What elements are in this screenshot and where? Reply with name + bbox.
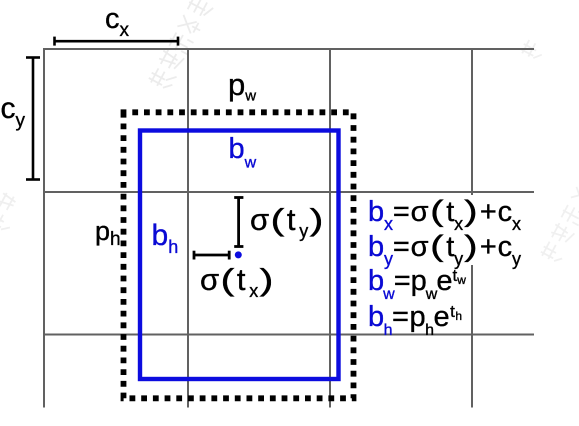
- grid horizontal line 2: [44, 191, 534, 193]
- annotation sigma(t_y): [250, 204, 326, 240]
- grid vertical line 4: [471, 48, 473, 408]
- c_y measure line: [26, 58, 40, 180]
- equation line 4: b_h = p_h e^t_h: [368, 303, 463, 339]
- sigma(t_x) measure line: [194, 251, 229, 260]
- grid vertical line 1: [43, 48, 45, 408]
- watermark small fragment top-right: [520, 39, 546, 62]
- label c_x: [105, 5, 129, 40]
- watermark bottom-left partial: [0, 192, 24, 234]
- equation line 3: b_w = p_w e^t_w: [368, 267, 466, 303]
- predicted box: blue rectangle: [140, 131, 339, 380]
- sigma(t_y) measure line: [234, 198, 243, 247]
- equation line 2: b_y = sigma(t_y)+c_y: [368, 232, 521, 268]
- grid horizontal line 1: [44, 48, 534, 50]
- label c_y: [1, 94, 26, 131]
- label p_h: [95, 218, 121, 249]
- grid horizontal line 3: [44, 334, 534, 336]
- equation line 1: b_x = sigma(t_x)+c_x: [368, 197, 521, 233]
- label p_w: [228, 69, 256, 104]
- watermark right-edge chain: [539, 186, 579, 264]
- prior box: dotted rectangle: [124, 112, 354, 398]
- grid vertical line 2: [187, 48, 189, 408]
- white patch hiding grid line behind equations 1-2: [455, 195, 540, 265]
- center point blue dot: [235, 251, 242, 258]
- watermark main chain: [147, 0, 214, 92]
- label b_w: [229, 135, 257, 172]
- grid vertical line 3: [329, 48, 331, 408]
- label b_h: [152, 221, 179, 256]
- annotation sigma(t_x): [200, 264, 276, 300]
- c_x measure line: [55, 37, 179, 46]
